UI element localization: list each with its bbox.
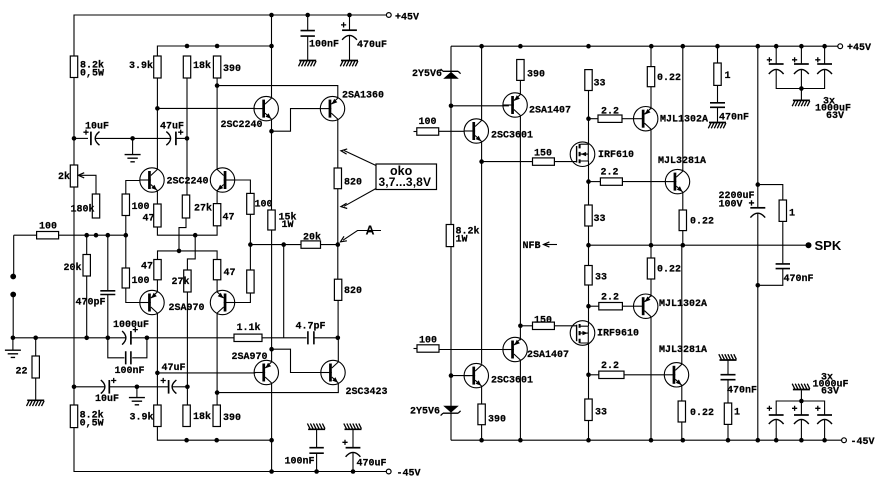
capacitor 470uF (top-left, polarized) bbox=[349, 15, 351, 30]
capacitor 470nF (zobel upper) bbox=[710, 103, 725, 108]
ground (hatched) above 470uF bottom-left bbox=[345, 428, 362, 430]
wire bias column lower bbox=[450, 247, 452, 441]
svg-text:390: 390 bbox=[488, 415, 506, 426]
wire 27k upper to lower bus (crossover) bbox=[179, 218, 186, 251]
ground (IEC) lower cap line bbox=[136, 387, 138, 397]
resistor 180k bbox=[92, 194, 99, 218]
terminal SPK bbox=[806, 242, 812, 248]
terminal input gnd bbox=[10, 292, 16, 298]
wire collector lower-left pair bbox=[156, 313, 158, 405]
mosfet IRF610 bbox=[570, 142, 595, 167]
wire 390 node to 2SA1360 emitter bbox=[217, 86, 338, 99]
wire crossover down from upper bus bbox=[187, 235, 195, 270]
transistor 2SA1407 (upper driver) bbox=[503, 93, 527, 117]
transistor MJL3281A (lower) bbox=[664, 363, 688, 387]
capacitor bank 3x1000uF 63V (lower) bbox=[775, 419, 777, 440]
resistor 150 (upper) bbox=[533, 158, 555, 165]
svg-text:33: 33 bbox=[595, 273, 607, 284]
wire VAS collector to +45 bbox=[271, 15, 273, 98]
svg-text:470pF: 470pF bbox=[76, 298, 106, 309]
resistor 390 (upper) bbox=[213, 56, 220, 78]
svg-text:2SC3601: 2SC3601 bbox=[491, 376, 533, 387]
ground (hatched) under 100nF top-left bbox=[299, 60, 316, 62]
resistor 390 (lower) bbox=[213, 405, 220, 427]
wire jog lower VAS emitter to 2SC3423 base bbox=[272, 349, 322, 372]
wire lower driver base line bbox=[451, 375, 470, 377]
svg-text:33: 33 bbox=[595, 408, 607, 419]
svg-text:3.9k: 3.9k bbox=[130, 412, 154, 424]
junction dot upper emitter bus bbox=[193, 233, 198, 238]
ground (hatched) above 100nF bottom-left bbox=[308, 428, 325, 430]
junction dots on -45V left rail bbox=[269, 469, 274, 474]
junction dot node bias upper bbox=[72, 136, 77, 141]
resistor 33 (upper 1) bbox=[585, 70, 592, 91]
resistor 0.22 (lower 1) bbox=[650, 245, 652, 258]
resistor 2.2 (lower 1) bbox=[589, 305, 599, 307]
polarity + of 10uF lower bbox=[111, 378, 116, 383]
svg-text:MJL3281A: MJL3281A bbox=[658, 156, 706, 167]
arrow callout lower bbox=[344, 189, 376, 207]
transistor 2SA970 (lower VAS) bbox=[254, 360, 278, 384]
wire upper emitter bus bbox=[157, 226, 217, 235]
wire +45V sub-rail y=46 (left half) bbox=[157, 46, 271, 56]
svg-text:-45V: -45V bbox=[397, 469, 421, 480]
wire +45V top rail (right half) bbox=[451, 45, 838, 47]
svg-text:100V +: 100V + bbox=[719, 200, 755, 211]
junction dots on -45V right rail bbox=[479, 438, 484, 443]
svg-text:2SC2240: 2SC2240 bbox=[221, 120, 263, 131]
polarity + marks upper bank bbox=[767, 57, 772, 62]
terminal -45V (left) bbox=[386, 469, 391, 474]
resistor 2.2 (upper 1) bbox=[589, 118, 599, 120]
capacitor 2200uF 100V (snubber) bbox=[750, 207, 765, 209]
junction dot snubber top bbox=[756, 182, 761, 187]
wire signal ground bus y=337.8 bbox=[13, 337, 125, 339]
wire MJL1302A lower collector to rail bbox=[650, 317, 652, 441]
wire emitter lower-left to 47 bbox=[156, 280, 158, 292]
junction dots on +45V left rail bbox=[269, 13, 274, 18]
wire 390 to rail bbox=[481, 425, 483, 441]
arrow callout upper bbox=[344, 151, 376, 166]
svg-text:100nF: 100nF bbox=[309, 40, 339, 51]
ground (hatched) lower bank bbox=[800, 390, 802, 401]
wire lower VAS base bbox=[157, 372, 255, 374]
resistor 33 (lower 1) bbox=[588, 245, 590, 265]
terminal +45V (right) bbox=[838, 44, 843, 49]
wire upper gate line bbox=[482, 161, 533, 163]
svg-text:1.1k: 1.1k bbox=[237, 322, 261, 334]
svg-text:27k: 27k bbox=[172, 276, 190, 288]
resistor 3.9k (lower) bbox=[154, 405, 161, 427]
svg-text:2.2: 2.2 bbox=[601, 293, 619, 304]
svg-text:2k: 2k bbox=[58, 171, 70, 183]
capacitor 10uF (upper, polarized) bbox=[74, 137, 88, 139]
svg-text:2SC3601: 2SC3601 bbox=[491, 131, 533, 142]
svg-text:IRF9610: IRF9610 bbox=[597, 329, 639, 340]
wire 1.1k branch down bbox=[283, 245, 285, 338]
wire 390 to 2SA1407 emitter bbox=[519, 80, 521, 94]
junction dot lower output node 2 bbox=[586, 373, 591, 378]
transistor 2SA970 (lower pair right) bbox=[210, 290, 234, 314]
wire IRF9610 source down bbox=[588, 343, 590, 399]
svg-text:47uF: 47uF bbox=[160, 122, 184, 133]
resistor 390 (right lower) bbox=[478, 404, 485, 425]
polarity + marks lower bank bbox=[767, 406, 772, 411]
svg-text:22: 22 bbox=[16, 367, 28, 378]
resistor 1 (zobel lower) bbox=[727, 380, 729, 403]
svg-text:MJL3281A: MJL3281A bbox=[659, 345, 707, 356]
wire driver bus (2SA1407 collectors) bbox=[519, 116, 521, 341]
junction dot 390/2SA1360 node bbox=[215, 83, 220, 88]
wire snubber column to -45 bbox=[757, 285, 759, 440]
resistor 2.2 (upper 2) bbox=[589, 181, 601, 183]
svg-text:820: 820 bbox=[344, 178, 362, 189]
svg-text:390: 390 bbox=[223, 64, 241, 75]
junction dot 1.1k branch bbox=[281, 242, 286, 247]
wire node A to 820 lower bbox=[337, 245, 339, 280]
svg-text:470nF: 470nF bbox=[727, 386, 757, 397]
svg-text:1W: 1W bbox=[282, 220, 294, 231]
resistor 0.22 (upper 2) bbox=[679, 210, 686, 231]
wire VAS base bbox=[157, 107, 255, 109]
capacitor 470uF (bottom-left, polarized) bbox=[352, 453, 354, 472]
terminal -45V (right) bbox=[842, 438, 847, 443]
transistor 2SA970 (lower pair left) bbox=[140, 290, 164, 314]
junction dot 4.7pF node bbox=[336, 336, 341, 341]
wire emitter lower-right to 47 bbox=[216, 280, 218, 292]
svg-text:820: 820 bbox=[344, 286, 362, 297]
svg-text:1W: 1W bbox=[456, 235, 468, 246]
svg-text:NFB: NFB bbox=[523, 241, 541, 252]
svg-text:100: 100 bbox=[132, 202, 150, 213]
wire -45V rail (left half) bbox=[74, 428, 386, 472]
capacitor 47uF (lower, polarized) bbox=[137, 386, 169, 388]
svg-text:10uF: 10uF bbox=[85, 122, 109, 133]
junction dot VAS emitter node bbox=[269, 129, 274, 134]
wire 390 bottom to node bbox=[216, 78, 218, 170]
wire 15k down to lower VAS bbox=[271, 230, 273, 362]
transistor MJL3281A (upper) bbox=[665, 169, 689, 193]
wire base lower pair right bbox=[235, 293, 251, 303]
wire 2SC3601 collector to rail bbox=[481, 46, 483, 120]
wire 2SA1360 collector to 820 bbox=[337, 119, 339, 168]
wire 100 mid chain bbox=[125, 216, 127, 269]
transistor 2SA1360 bbox=[320, 96, 344, 120]
wire 18k to 47uF node bbox=[186, 78, 188, 195]
svg-text:4.7pF: 4.7pF bbox=[296, 322, 326, 333]
resistor 15k 1W bbox=[268, 210, 275, 230]
capacitor bank 3x1000uF 63V (upper) bbox=[775, 46, 777, 63]
junction dot upper output node 1 bbox=[586, 116, 591, 121]
wire 2k bottom down left column bbox=[73, 187, 75, 405]
wire collector lower-right pair bbox=[216, 313, 218, 405]
resistor 1.1k bbox=[234, 334, 262, 341]
svg-text:390: 390 bbox=[223, 413, 241, 424]
wire row to rail bbox=[271, 440, 273, 471]
svg-text:3.9k: 3.9k bbox=[129, 60, 153, 72]
resistor 33 (upper 2) bbox=[585, 205, 592, 226]
resistor 33 (lower 2) bbox=[585, 399, 592, 421]
svg-text:2SA1407: 2SA1407 bbox=[529, 106, 571, 117]
wire input to jack bbox=[13, 235, 15, 274]
resistor 820 (upper) bbox=[334, 168, 341, 189]
resistor 20k (vertical) bbox=[86, 235, 88, 254]
svg-text:+45V: +45V bbox=[395, 13, 419, 24]
junction dots on SPK bus bbox=[586, 243, 591, 248]
resistor 0.22 (upper 1) bbox=[650, 46, 652, 66]
wire MJL3281A lower emitter to 0.22 bbox=[681, 385, 683, 401]
svg-text:2Y5V6: 2Y5V6 bbox=[412, 69, 442, 80]
junction dots on bias line bbox=[84, 233, 89, 238]
svg-text:2SA970: 2SA970 bbox=[169, 303, 205, 314]
transistor 2SC3601 (upper) bbox=[464, 119, 488, 143]
svg-text:150: 150 bbox=[534, 316, 552, 327]
svg-text:47: 47 bbox=[143, 214, 155, 225]
wire lower VAS collector down bbox=[271, 383, 273, 440]
junction dot upper output node 2 bbox=[586, 179, 591, 184]
node A dot bbox=[336, 242, 341, 247]
svg-text:100: 100 bbox=[132, 276, 150, 287]
wire 27k lower down bbox=[186, 292, 188, 405]
svg-text:+45V: +45V bbox=[847, 43, 871, 54]
transistor 2SC3601 (lower) bbox=[464, 363, 488, 387]
resistor 47 (lower left) bbox=[154, 260, 161, 280]
wire 2SC3601 lower emitter to 390 bbox=[481, 386, 483, 404]
wire snubber column from +45 bbox=[757, 46, 759, 184]
svg-text:0.22: 0.22 bbox=[657, 73, 681, 84]
svg-text:20k: 20k bbox=[303, 232, 321, 244]
resistor 100 (upper right) bbox=[247, 193, 254, 214]
polarity + of 47uF lower bbox=[161, 378, 166, 383]
transistor 2SC2240 (VAS follower) bbox=[254, 96, 278, 120]
transistor MJL1302A (upper) bbox=[634, 107, 658, 131]
wire snubber jog top bbox=[758, 185, 783, 200]
resistor 2.2 (lower 2) bbox=[589, 374, 599, 376]
arrow NFB bbox=[545, 244, 558, 246]
resistor 1 (snubber) bbox=[779, 200, 786, 221]
zener diode 2Y5V6 (upper) bbox=[441, 69, 461, 74]
svg-text:1000uF: 1000uF bbox=[113, 320, 149, 331]
wire 33 to IRF610 drain bbox=[588, 91, 590, 145]
svg-text:100: 100 bbox=[419, 336, 437, 347]
transistor 2SC2240 (input pair right) bbox=[210, 168, 234, 192]
junction dot upper gate node bbox=[479, 159, 484, 164]
svg-text:150: 150 bbox=[534, 149, 552, 160]
resistor 820 (lower) bbox=[334, 279, 341, 300]
wire 33 to rail bbox=[588, 421, 590, 441]
ground (hatched) upper bank bbox=[800, 89, 802, 100]
svg-text:100nF: 100nF bbox=[115, 366, 145, 377]
resistor 100 (lower mid) bbox=[122, 268, 129, 288]
svg-text:63V: 63V bbox=[821, 387, 839, 398]
resistor 150 (lower) bbox=[533, 322, 555, 329]
wire 1 down across SPK bus bbox=[782, 221, 784, 263]
transistor MJL1302A (lower) bbox=[634, 294, 658, 318]
wire base of input pair right bbox=[235, 180, 251, 193]
svg-text:47uF: 47uF bbox=[162, 363, 186, 374]
wire feedback line y=244.6 bbox=[250, 244, 301, 246]
svg-text:MJL1302A: MJL1302A bbox=[659, 299, 707, 310]
svg-text:0.22: 0.22 bbox=[690, 408, 714, 419]
junction dot snubber bottom bbox=[756, 283, 761, 288]
zener diode 2Y5V6 (lower) bbox=[441, 411, 461, 416]
wire 2SA1407 lower emitter to rail bbox=[519, 360, 521, 440]
junction dot 10uF/ground bbox=[130, 136, 135, 141]
junction dots on ground bus bbox=[11, 336, 16, 341]
transistor 2SC3423 bbox=[321, 360, 345, 384]
resistor 8.2k 0,5W (lower left) bbox=[70, 405, 77, 428]
svg-text:2SA1360: 2SA1360 bbox=[342, 91, 384, 102]
svg-text:2.2: 2.2 bbox=[601, 361, 619, 372]
svg-text:390: 390 bbox=[527, 70, 545, 81]
svg-text:18k: 18k bbox=[193, 411, 211, 423]
junction dot lower bias node bbox=[72, 385, 77, 390]
wiper arrow of 2k bbox=[78, 173, 84, 178]
terminal +45V (left) bbox=[386, 13, 391, 18]
resistor 100 (lower right) bbox=[247, 270, 254, 293]
junction dot upper driver base node bbox=[449, 104, 454, 109]
wire bias line bbox=[59, 234, 126, 236]
wire VAS emitter to node bbox=[271, 119, 273, 131]
svg-text:33: 33 bbox=[594, 79, 606, 90]
wire collector input-left to 3.9k bbox=[156, 78, 158, 170]
wire 1.1k to 4.7pF bbox=[262, 337, 307, 339]
junction dot lower gate tap bbox=[518, 324, 523, 329]
resistor 22 bbox=[35, 338, 37, 356]
svg-text:SPK: SPK bbox=[815, 238, 842, 253]
transistor 2SC2240 (input pair left) bbox=[140, 168, 164, 192]
svg-text:2Y5V6: 2Y5V6 bbox=[410, 407, 440, 418]
mosfet IRF9610 bbox=[570, 321, 595, 346]
svg-text:100nF: 100nF bbox=[285, 457, 315, 468]
wire 33 to SPK bus bbox=[588, 226, 590, 245]
wire 820 upper to node A bbox=[337, 189, 339, 245]
polarity + of 1000uF bbox=[133, 327, 138, 332]
junction dots lower row bbox=[184, 438, 189, 443]
ground (hatched) zobel lower bbox=[720, 359, 737, 361]
capacitor 1000uF (feedback, polarized) bbox=[122, 331, 126, 345]
ground (hatched) under 470uF top-left bbox=[341, 60, 358, 62]
wire 20k to node A bbox=[321, 244, 338, 246]
ground (hatched) zobel upper bbox=[709, 122, 726, 124]
capacitor 470nF (zobel lower) bbox=[727, 360, 729, 375]
resistor 100 (input) bbox=[37, 232, 59, 239]
wire jog VAS emitter to 2SA1360 base bbox=[272, 109, 321, 132]
svg-text:63V: 63V bbox=[826, 111, 844, 122]
resistor 100 (right input lower) bbox=[414, 348, 418, 350]
wire 33 to IRF9610 drain bbox=[588, 285, 590, 326]
wire 8.2k to 10uF node bbox=[73, 78, 75, 166]
resistor 27k (upper) bbox=[182, 195, 189, 218]
svg-text:2SC2240: 2SC2240 bbox=[167, 177, 209, 188]
resistor 18k (upper) bbox=[183, 56, 190, 78]
resistor 390 (right upper) bbox=[517, 60, 524, 81]
wire lower resistor row bbox=[157, 427, 271, 441]
resistor 8.2k 1W (bias) bbox=[446, 225, 453, 247]
junction dot lower ground node bbox=[135, 385, 140, 390]
junction dot lower bank bbox=[799, 399, 804, 404]
capacitor 10uF (lower, polarized) bbox=[101, 380, 105, 394]
svg-text:47: 47 bbox=[141, 262, 153, 273]
wire 100 to base of input pair left bbox=[126, 181, 140, 195]
junction dot lower emitter bus bbox=[177, 249, 182, 254]
capacitor 100nF (top-left decoupling) bbox=[307, 15, 309, 30]
svg-text:1: 1 bbox=[734, 408, 740, 419]
wire 820 lower to 4.7pF node bbox=[337, 300, 339, 337]
junction dot 390L/2SC3423 node bbox=[215, 390, 220, 395]
svg-text:47: 47 bbox=[224, 268, 236, 279]
wire 4.7pF to node bbox=[314, 337, 338, 339]
wire to 2SA1407 lower base bbox=[439, 349, 503, 351]
junction dots on sub-rail bbox=[185, 44, 190, 49]
svg-text:2SA1407: 2SA1407 bbox=[527, 350, 569, 361]
wire upper driver base bbox=[451, 105, 509, 107]
ground (IEC) input bbox=[12, 338, 14, 350]
wire SPK output bus bbox=[589, 244, 807, 246]
trimmer 2k bbox=[70, 165, 77, 187]
wire snubber bottom jog bbox=[758, 269, 783, 286]
wire VAS emitter node to 15k bbox=[271, 131, 273, 210]
wire IRF610 source down bbox=[588, 161, 590, 205]
svg-text:470nF: 470nF bbox=[784, 274, 814, 285]
junction dot lower output node 1 bbox=[586, 304, 591, 309]
svg-text:0.22: 0.22 bbox=[657, 265, 681, 276]
capacitor 100nF (feedback bypass loop) bbox=[108, 338, 125, 358]
wire to 2SC3601 base bbox=[439, 130, 464, 132]
svg-text:1: 1 bbox=[725, 71, 731, 82]
polarity + of 470uF bottom-left bbox=[342, 440, 347, 445]
wire lower bias line y=386.8 bbox=[74, 386, 105, 388]
wire 150 to IRF610 gate bbox=[554, 161, 576, 163]
svg-text:33: 33 bbox=[594, 214, 606, 225]
svg-text:100: 100 bbox=[39, 222, 57, 233]
junction dot lower VAS emitter node bbox=[269, 347, 274, 352]
svg-text:18k: 18k bbox=[193, 60, 211, 72]
wire 0.22 to rail bbox=[681, 422, 683, 440]
svg-text:10uF: 10uF bbox=[95, 394, 119, 405]
svg-text:2SC3423: 2SC3423 bbox=[346, 387, 388, 398]
wire MJL3281A collector to rail bbox=[682, 46, 684, 171]
wire zener to bias column bbox=[450, 46, 452, 224]
capacitor 100nF (bottom-left decoupling) bbox=[316, 453, 318, 471]
wire -45V bottom rail (right half) bbox=[451, 439, 842, 441]
capacitor 4.7pF bbox=[308, 331, 314, 344]
resistor 47 (upper left) bbox=[154, 204, 161, 227]
junction dot 47uF lower node bbox=[185, 385, 190, 390]
resistor 47 (upper right) bbox=[213, 204, 220, 226]
svg-text:0,5W: 0,5W bbox=[80, 419, 104, 430]
svg-text:20k: 20k bbox=[64, 262, 82, 274]
junction dot lower driver base node bbox=[449, 373, 454, 378]
capacitor 470nF (snubber) bbox=[776, 264, 790, 269]
resistor 1 (zobel upper) bbox=[717, 46, 719, 63]
wire MJL1302A collector to SPK bus bbox=[650, 129, 652, 245]
transistor 2SA1407 (lower driver) bbox=[503, 337, 527, 361]
wire input line bbox=[14, 234, 37, 236]
junction dot feedback base node bbox=[248, 242, 253, 247]
wire MJL3281A lower collector to SPK bus bbox=[681, 245, 683, 364]
wire +45V top rail (left half) bbox=[74, 15, 387, 56]
resistor 27k (lower) bbox=[184, 270, 191, 292]
svg-text:27k: 27k bbox=[194, 203, 212, 215]
polarity + of 10uF upper bbox=[83, 130, 88, 135]
svg-text:470uF: 470uF bbox=[357, 40, 387, 51]
svg-text:100: 100 bbox=[255, 200, 273, 211]
wire 2SC3423 emitter jog bbox=[217, 383, 338, 393]
ground (IEC) on upper cap line bbox=[132, 138, 134, 154]
wire emitters input pair left bbox=[156, 191, 158, 205]
svg-text:-45V: -45V bbox=[851, 437, 875, 448]
